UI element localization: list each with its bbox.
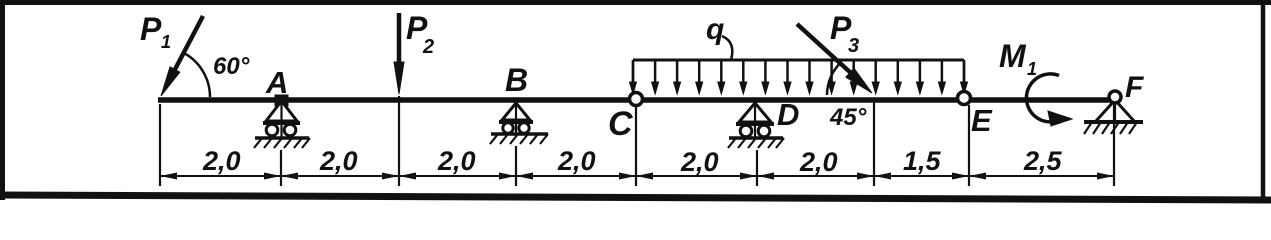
svg-text:3: 3 <box>848 35 859 57</box>
svg-text:2,0: 2,0 <box>437 146 476 176</box>
svg-text:2,0: 2,0 <box>202 146 241 176</box>
beam <box>158 97 1115 103</box>
svg-text:q: q <box>706 13 724 46</box>
force P3 <box>797 24 872 93</box>
svg-text:M: M <box>999 38 1027 74</box>
q pointer <box>722 36 732 60</box>
label P3 <box>830 10 859 57</box>
svg-text:60°: 60° <box>213 53 250 80</box>
svg-text:2,0: 2,0 <box>557 146 596 176</box>
pin support F <box>1084 91 1143 134</box>
svg-text:1,5: 1,5 <box>903 146 942 176</box>
angle arc 45 <box>827 62 841 95</box>
label P1 <box>140 11 171 52</box>
hinge C <box>630 93 643 106</box>
svg-text:P: P <box>140 11 162 47</box>
roller support D <box>728 103 784 148</box>
dimension arrowheads <box>160 173 1114 180</box>
dimension extension lines <box>160 96 1114 186</box>
roller support A <box>254 96 310 148</box>
svg-text:F: F <box>1125 71 1144 104</box>
label P2 <box>406 10 434 58</box>
svg-text:45°: 45° <box>829 104 867 131</box>
distributed load q <box>630 60 968 94</box>
svg-text:2,0: 2,0 <box>319 146 358 176</box>
dimension line <box>160 175 1114 177</box>
svg-text:1: 1 <box>1027 59 1037 79</box>
svg-text:A: A <box>265 65 288 100</box>
svg-text:2: 2 <box>422 36 434 58</box>
svg-text:B: B <box>505 62 528 98</box>
svg-text:C: C <box>608 105 633 143</box>
svg-text:2,0: 2,0 <box>680 147 719 177</box>
force P2 <box>394 13 404 94</box>
svg-text:2,0: 2,0 <box>799 147 838 177</box>
svg-text:D: D <box>777 97 799 132</box>
roller support B <box>490 103 548 144</box>
moment M1 arc <box>1026 74 1072 126</box>
svg-text:E: E <box>971 103 993 138</box>
hinge E <box>958 92 971 105</box>
svg-text:2,5: 2,5 <box>1023 146 1063 176</box>
label M1 <box>999 38 1037 79</box>
force P1 <box>161 16 203 96</box>
angle arc 60 <box>183 52 210 97</box>
svg-text:1: 1 <box>161 32 171 52</box>
